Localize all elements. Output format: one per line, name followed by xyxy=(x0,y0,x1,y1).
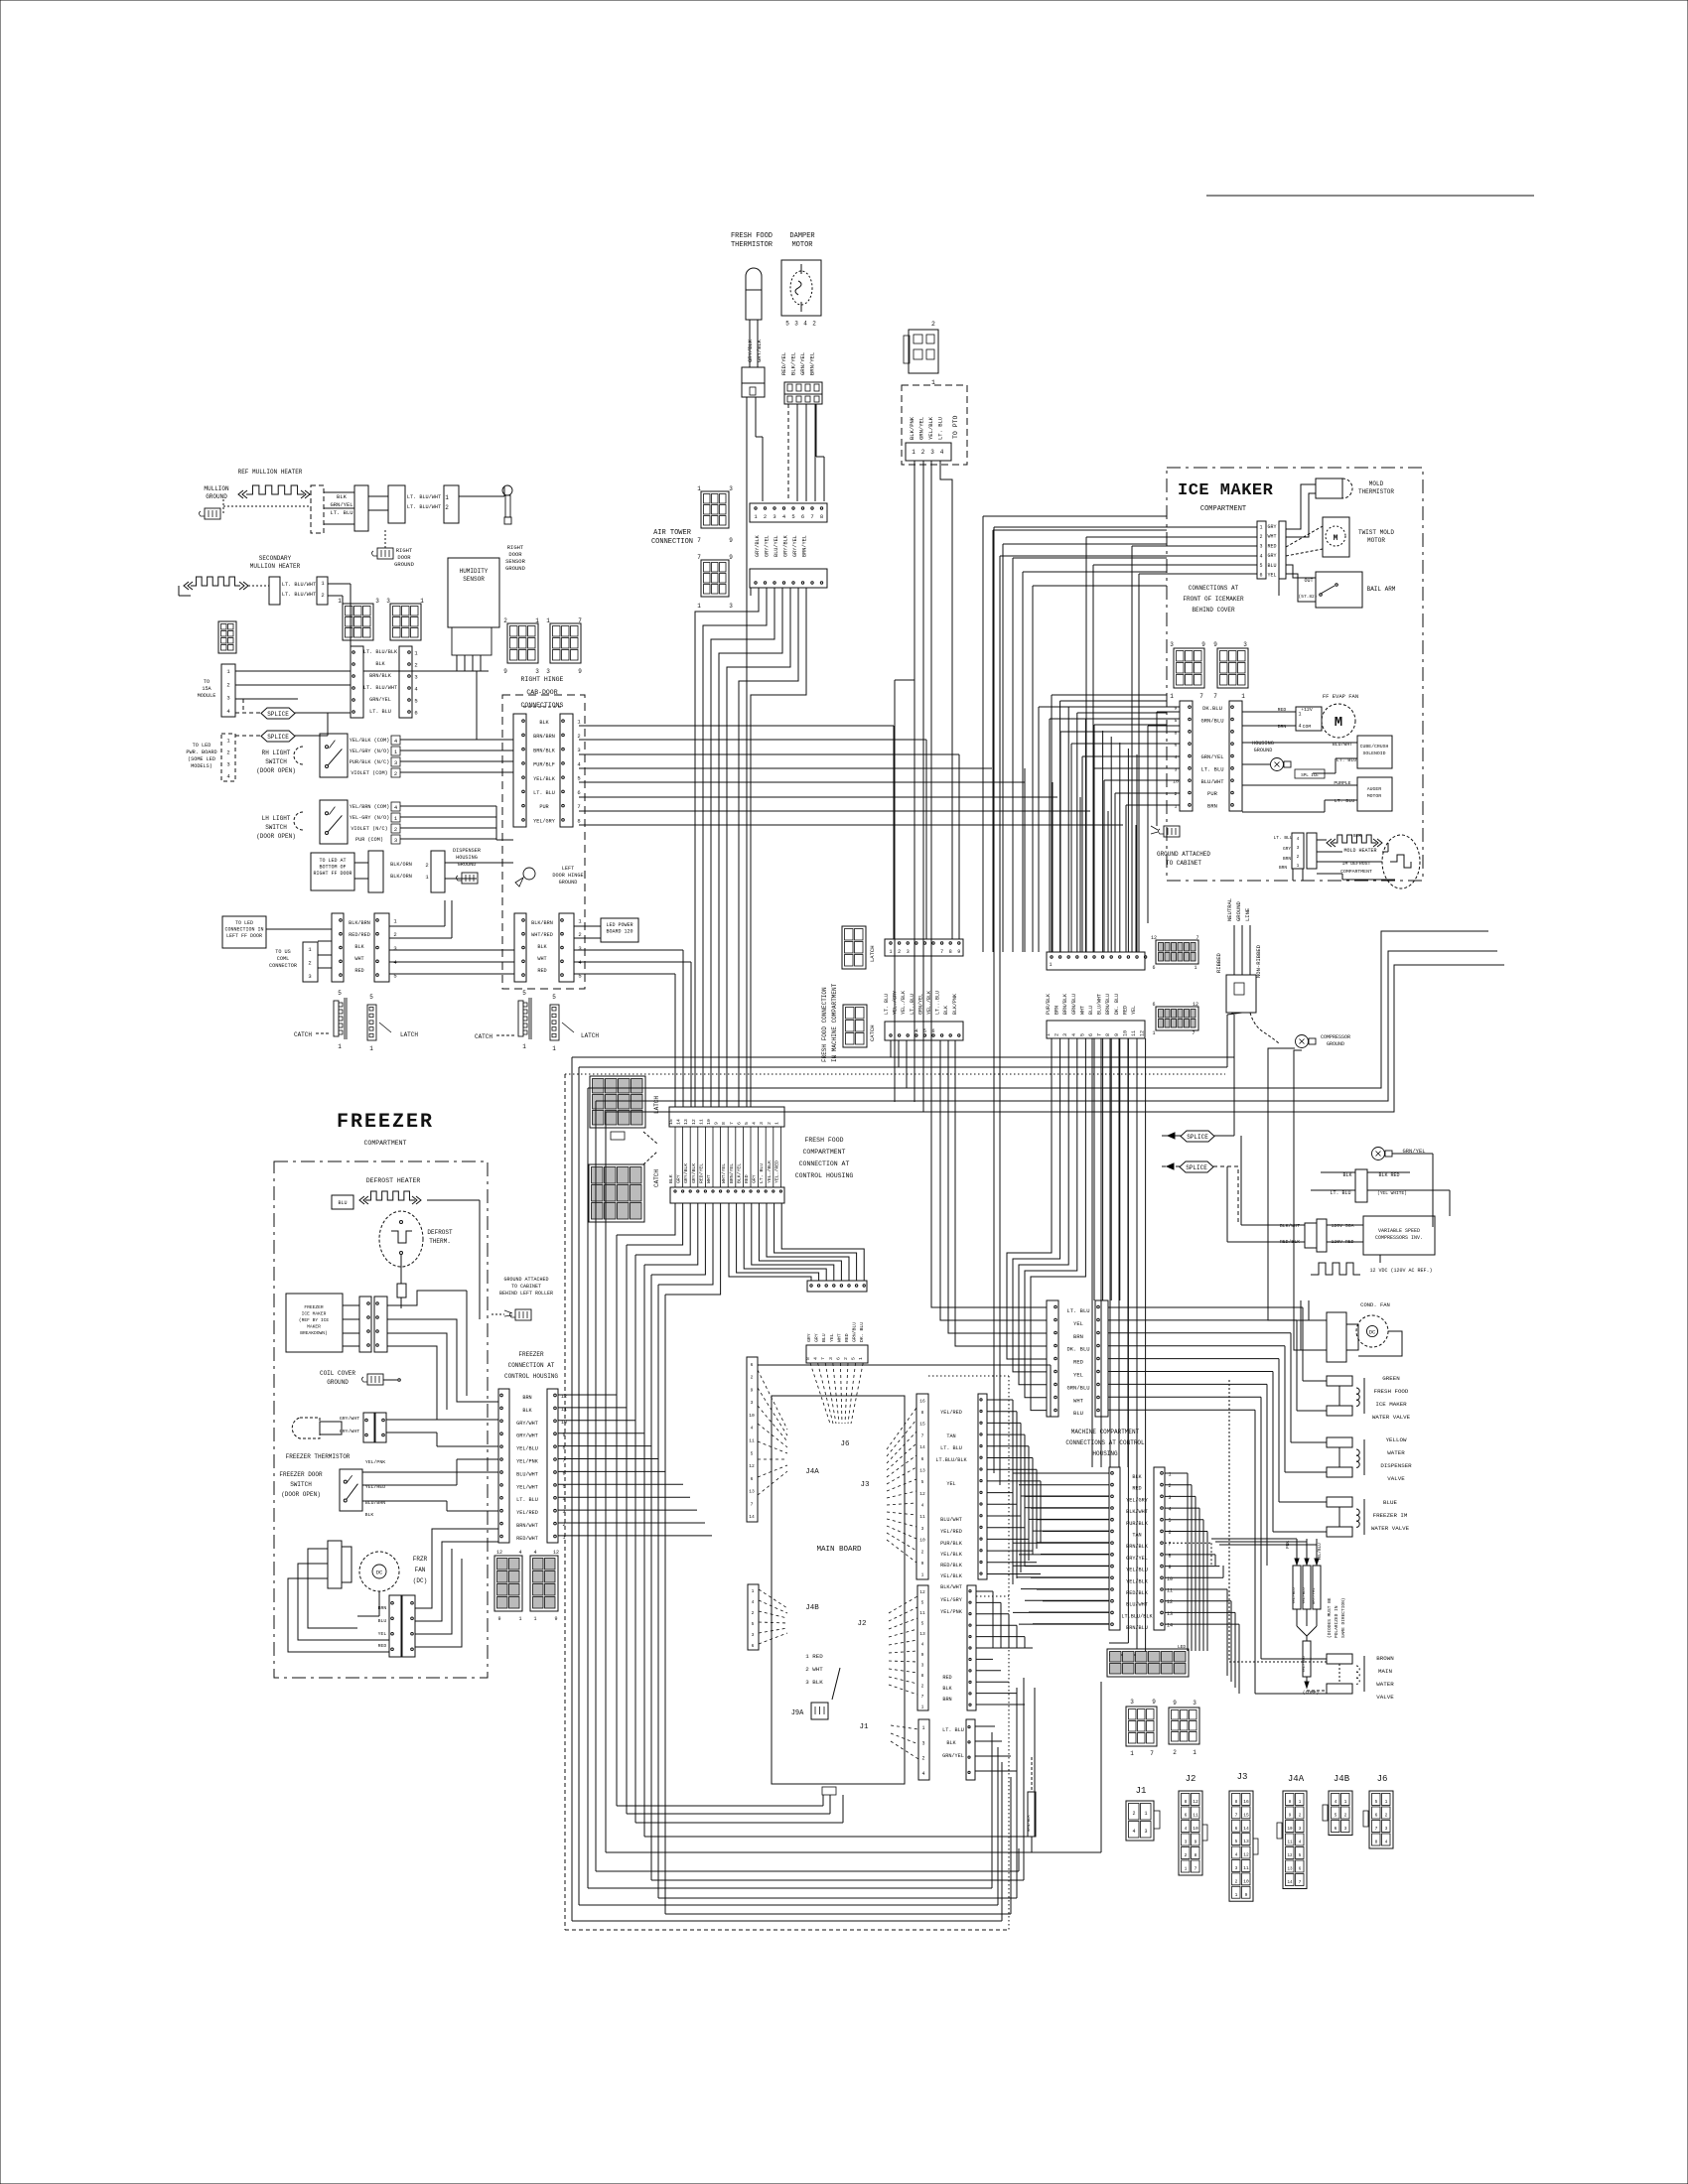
connector - ice maker grid A xyxy=(1174,648,1204,688)
svg-text:BRN: BRN xyxy=(1073,1333,1083,1340)
svg-text:1: 1 xyxy=(1194,965,1196,971)
left door hinge key symbol xyxy=(502,485,512,495)
svg-text:15A: 15A xyxy=(202,686,211,692)
svg-text:LEFT FF DOOR: LEFT FF DOOR xyxy=(226,933,262,939)
svg-text:3: 3 xyxy=(1130,1699,1134,1706)
svg-text:9: 9 xyxy=(1114,1033,1120,1036)
connector - latch grid big xyxy=(590,1076,645,1128)
svg-text:2: 2 xyxy=(921,449,925,456)
svg-text:9: 9 xyxy=(921,1561,924,1567)
svg-text:BRN: BRN xyxy=(1278,724,1287,730)
svg-text:ICE MAKER: ICE MAKER xyxy=(302,1311,327,1317)
svg-text:1: 1 xyxy=(1144,1811,1147,1817)
svg-text:GRY/BLK: GRY/BLK xyxy=(691,1163,697,1183)
svg-text:RED: RED xyxy=(378,1643,387,1649)
switch - LH light SW2 xyxy=(320,800,348,844)
ground - dispenser housing xyxy=(462,873,478,884)
svg-text:RED/BLK: RED/BLK xyxy=(1126,1590,1149,1596)
svg-text:BLK: BLK xyxy=(668,1174,674,1183)
svg-text:1: 1 xyxy=(1152,1030,1155,1036)
svg-text:PUR (COM): PUR (COM) xyxy=(355,837,383,843)
svg-text:FREEZER: FREEZER xyxy=(518,1351,544,1358)
svg-text:1: 1 xyxy=(697,485,701,492)
svg-text:1: 1 xyxy=(1344,1799,1347,1805)
wire - mold heater loop xyxy=(1317,839,1327,841)
svg-text:1: 1 xyxy=(1049,962,1052,968)
svg-text:YEL: YEL xyxy=(1073,1320,1083,1327)
svg-text:(YEL WHITE): (YEL WHITE) xyxy=(1377,1190,1407,1196)
svg-text:AUGER: AUGER xyxy=(1367,786,1382,792)
svg-text:3: 3 xyxy=(930,449,934,456)
svg-text:M: M xyxy=(1335,715,1342,731)
svg-text:MAIN: MAIN xyxy=(1378,1668,1392,1675)
right hinge dashed box xyxy=(502,695,585,989)
svg-text:1: 1 xyxy=(1193,1749,1196,1756)
svg-text:15: 15 xyxy=(919,1422,925,1428)
svg-text:BLU: BLU xyxy=(338,1200,347,1206)
freezer compartment box xyxy=(274,1161,488,1678)
svg-text:GRY/YEL: GRY/YEL xyxy=(765,535,771,557)
svg-text:11: 11 xyxy=(919,1610,925,1616)
svg-text:2: 2 xyxy=(1385,1813,1388,1819)
wire - auger xyxy=(1242,784,1357,786)
svg-text:SWITCH: SWITCH xyxy=(290,1481,312,1488)
connector - J1 strip xyxy=(918,1719,929,1780)
svg-text:7: 7 xyxy=(697,537,701,544)
wire - freezer strip right fanout xyxy=(558,1394,617,1396)
svg-text:WHT: WHT xyxy=(537,956,546,962)
svg-text:TO CABINET: TO CABINET xyxy=(511,1284,541,1290)
svg-text:GROUND: GROUND xyxy=(559,880,578,886)
svg-text:FRESH FOOD: FRESH FOOD xyxy=(731,232,773,240)
svg-text:1: 1 xyxy=(1241,693,1245,700)
svg-text:6: 6 xyxy=(736,1122,742,1125)
connector - J3 strip xyxy=(916,1394,928,1579)
wire - thermistor leads xyxy=(1286,484,1316,529)
svg-text:6: 6 xyxy=(414,710,417,717)
svg-text:3: 3 xyxy=(759,1122,765,1125)
cube crush solenoid box xyxy=(1357,736,1392,768)
svg-text:9: 9 xyxy=(1245,1892,1248,1898)
svg-text:GROUND: GROUND xyxy=(505,565,526,572)
svg-text:YEL/GRY (N/O): YEL/GRY (N/O) xyxy=(350,749,389,754)
connector - door strip C xyxy=(351,646,363,718)
variable speed compressor inverter box xyxy=(1363,1216,1435,1255)
svg-text:4: 4 xyxy=(914,1028,917,1034)
wire - solenoid xyxy=(1242,742,1331,744)
valve - blue freezer IM xyxy=(1327,1497,1352,1507)
svg-text:8: 8 xyxy=(949,949,952,955)
svg-text:CONNECTION IN: CONNECTION IN xyxy=(224,927,263,933)
svg-text:YEL./GRY: YEL./GRY xyxy=(893,991,899,1015)
wire - LED box links xyxy=(266,928,332,930)
auger motor box xyxy=(1357,777,1392,811)
connector - hinge grid F xyxy=(550,623,581,663)
svg-text:FREEZER IM: FREEZER IM xyxy=(1373,1512,1408,1519)
dotted - J2 yel/gry run xyxy=(976,1595,1009,1597)
svg-text:PUR/BLK: PUR/BLK xyxy=(1126,1521,1149,1527)
svg-text:WHT: WHT xyxy=(1073,1397,1084,1404)
connector - fresh food connection strip lower xyxy=(670,1187,784,1203)
wire - vertical bus xyxy=(1012,1400,1014,1584)
svg-text:12: 12 xyxy=(691,1119,697,1125)
svg-text:BRN: BRN xyxy=(942,1697,951,1703)
svg-text:SWITCH: SWITCH xyxy=(265,758,287,765)
bail arm box xyxy=(1316,572,1362,608)
svg-text:GRY/YEL: GRY/YEL xyxy=(1126,1556,1148,1562)
svg-text:FREEZER THERMISTOR: FREEZER THERMISTOR xyxy=(286,1453,351,1460)
svg-text:CONNECTIONS AT: CONNECTIONS AT xyxy=(1189,585,1239,592)
connector - J4B numbers strip xyxy=(748,1584,759,1650)
connector - machine housing strip right xyxy=(1154,1467,1165,1630)
svg-text:GRY/WHT: GRY/WHT xyxy=(516,1421,538,1427)
svg-text:9: 9 xyxy=(578,668,582,675)
svg-text:DC: DC xyxy=(376,1570,383,1576)
connector - machine grid lower xyxy=(1156,1007,1198,1030)
svg-text:HOUSING: HOUSING xyxy=(1092,1450,1118,1457)
svg-text:BLK/YEL: BLK/YEL xyxy=(736,1163,742,1183)
svg-text:BLK/BRN: BLK/BRN xyxy=(349,920,370,926)
svg-text:3: 3 xyxy=(907,949,910,955)
svg-text:J6: J6 xyxy=(840,1440,850,1448)
wire - machine corner 2 xyxy=(596,951,1497,1101)
connector - catch grid big xyxy=(589,1164,644,1222)
svg-text:3: 3 xyxy=(773,513,775,520)
svg-text:3: 3 xyxy=(1297,845,1300,851)
svg-text:BRN: BRN xyxy=(522,1395,531,1401)
svg-text:LATCH: LATCH xyxy=(400,1031,418,1038)
ground - mullion xyxy=(205,508,220,519)
wire - frzr fan loop xyxy=(308,1549,357,1628)
svg-text:YEL: YEL xyxy=(1073,1372,1083,1379)
svg-text:11: 11 xyxy=(1167,1588,1173,1594)
svg-text:YEL: YEL xyxy=(1267,573,1276,579)
svg-text:RED/WHT: RED/WHT xyxy=(516,1536,538,1542)
svg-text:1: 1 xyxy=(921,1572,924,1578)
svg-text:YEL/RED: YEL/RED xyxy=(940,1410,962,1416)
svg-text:8: 8 xyxy=(1235,1799,1238,1805)
wire - horizontal band xyxy=(572,1056,1234,1058)
wire - power cord leads xyxy=(1231,1013,1234,1015)
svg-text:PUR/BLK: PUR/BLK xyxy=(940,1541,963,1547)
svg-text:RIGHT: RIGHT xyxy=(507,544,524,551)
svg-text:12 VDC (120V AC REF.): 12 VDC (120V AC REF.) xyxy=(1369,1268,1432,1274)
svg-text:4: 4 xyxy=(1235,1852,1238,1858)
wire - J3 dashed fan xyxy=(887,1408,916,1449)
connector - mullion heater plug xyxy=(311,485,324,533)
connector - J6 pinout xyxy=(1369,1791,1393,1848)
svg-text:9: 9 xyxy=(729,537,733,544)
svg-text:LT. BLU: LT. BLU xyxy=(937,417,944,440)
connector - FF machine strip 2 xyxy=(885,1022,963,1040)
svg-text:BLU/WHT: BLU/WHT xyxy=(1200,778,1224,785)
svg-text:6: 6 xyxy=(1259,573,1262,579)
svg-text:6: 6 xyxy=(752,1643,755,1649)
connector - catch grid small xyxy=(843,1005,867,1047)
wire - FF lower strip left pins staircase down xyxy=(617,1203,675,1235)
svg-text:3: 3 xyxy=(1175,766,1178,772)
svg-text:2: 2 xyxy=(226,681,229,688)
svg-text:8: 8 xyxy=(1185,1799,1188,1805)
wire - J2 right outputs xyxy=(976,1590,993,1592)
svg-text:CONNECTIONS AT CONTROL: CONNECTIONS AT CONTROL xyxy=(1065,1439,1145,1446)
svg-text:4: 4 xyxy=(1185,1826,1188,1832)
svg-text:6: 6 xyxy=(801,513,804,520)
svg-text:AIR TOWER: AIR TOWER xyxy=(653,529,692,537)
svg-text:6: 6 xyxy=(751,1362,754,1368)
svg-text:7: 7 xyxy=(578,617,582,624)
svg-text:BLK: BLK xyxy=(354,944,364,950)
svg-text:2: 2 xyxy=(414,662,417,669)
svg-text:1: 1 xyxy=(518,1616,521,1622)
svg-text:RED: RED xyxy=(1073,1359,1084,1366)
svg-text:YEL/BLU: YEL/BLU xyxy=(1302,1587,1307,1604)
connector - ice maker pin strip left xyxy=(1180,701,1193,811)
wire - defrost heater loop xyxy=(427,1199,480,1201)
svg-text:8: 8 xyxy=(805,1357,811,1360)
svg-text:MOLD HEATER: MOLD HEATER xyxy=(1343,848,1376,854)
svg-text:3: 3 xyxy=(921,1526,924,1532)
svg-text:YEL/BLK: YEL/BLK xyxy=(940,1552,963,1558)
wire - ice maker bottom internal xyxy=(1292,869,1294,881)
svg-text:GRN/BLU: GRN/BLU xyxy=(1071,994,1077,1015)
svg-text:BLU/WHT: BLU/WHT xyxy=(1097,994,1103,1015)
wire - J6 dashed fan xyxy=(810,1363,830,1424)
svg-text:2: 2 xyxy=(1132,1811,1135,1817)
splice - auger xyxy=(1295,769,1325,778)
svg-text:4: 4 xyxy=(533,1550,536,1556)
connector - LED strip D xyxy=(559,913,574,982)
svg-text:RIGHT FF DOOR: RIGHT FF DOOR xyxy=(313,871,352,877)
svg-text:7: 7 xyxy=(1196,935,1198,941)
diode D2 xyxy=(1303,1566,1311,1609)
svg-text:9: 9 xyxy=(1201,641,1205,648)
svg-text:WATER VALVE: WATER VALVE xyxy=(1371,1525,1410,1532)
svg-text:RED/BLK: RED/BLK xyxy=(940,1563,963,1569)
connector - J4B pinout xyxy=(1329,1791,1352,1836)
wire - FF thermistor to fresh food strip xyxy=(746,397,748,1107)
svg-text:LT. BLU/WHT: LT. BLU/WHT xyxy=(407,504,441,510)
wire - damper to air tower xyxy=(787,404,789,501)
svg-text:2: 2 xyxy=(321,592,324,599)
svg-text:BRN: BRN xyxy=(378,1605,387,1611)
svg-text:ICE MAKER: ICE MAKER xyxy=(1178,481,1274,500)
svg-text:J4A: J4A xyxy=(1288,1774,1305,1784)
svg-text:13: 13 xyxy=(1287,1868,1293,1872)
svg-text:10: 10 xyxy=(1193,1826,1198,1832)
svg-text:CONNECTOR: CONNECTOR xyxy=(269,963,297,969)
svg-text:GREEN: GREEN xyxy=(1382,1375,1400,1382)
svg-text:BRN/YEL: BRN/YEL xyxy=(802,535,808,557)
svg-text:1: 1 xyxy=(369,1045,373,1052)
connector - J2 right strip xyxy=(967,1585,976,1710)
svg-text:BLK: BLK xyxy=(946,1740,956,1746)
svg-text:GRY: GRY xyxy=(814,1333,820,1342)
svg-text:3: 3 xyxy=(546,668,550,675)
svg-text:MULLION HEATER: MULLION HEATER xyxy=(250,563,301,570)
svg-text:3: 3 xyxy=(751,1400,754,1406)
svg-text:HOUSING: HOUSING xyxy=(456,855,478,861)
connector - LED strip C xyxy=(514,913,526,982)
svg-text:(DOOR OPEN): (DOOR OPEN) xyxy=(256,767,296,774)
svg-text:WHT: WHT xyxy=(1079,1006,1085,1015)
svg-text:1: 1 xyxy=(338,598,342,605)
wire - LED strips to right group xyxy=(389,925,445,927)
svg-text:4: 4 xyxy=(1298,724,1301,730)
svg-text:HOUSING: HOUSING xyxy=(1252,741,1274,747)
svg-text:WATER: WATER xyxy=(1376,1681,1394,1688)
svg-text:BLK/PNK: BLK/PNK xyxy=(952,994,958,1015)
svg-text:FAN: FAN xyxy=(415,1567,426,1573)
switch - RH light SW1 xyxy=(320,734,348,777)
svg-text:12: 12 xyxy=(919,1589,925,1595)
svg-text:(DOOR OPEN): (DOOR OPEN) xyxy=(256,833,296,840)
svg-text:BEHIND LEFT ROLLER: BEHIND LEFT ROLLER xyxy=(499,1291,553,1297)
svg-text:GRN/BLU: GRN/BLU xyxy=(852,1322,858,1342)
motor - FF evap fan M3 xyxy=(1322,704,1355,738)
wire - J4B dashed fan xyxy=(759,1589,787,1608)
svg-text:YEL/BLK: YEL/BLK xyxy=(533,776,556,782)
svg-text:BLK: BLK xyxy=(537,944,547,950)
connector - J6 strip 2 xyxy=(806,1345,868,1363)
diode D3 xyxy=(1313,1566,1321,1609)
connector - J4A pinout xyxy=(1283,1791,1307,1889)
svg-text:3: 3 xyxy=(1144,1829,1147,1835)
wire - diode top feeds xyxy=(1211,1538,1297,1540)
svg-text:BRN/BLU: BRN/BLU xyxy=(1126,1625,1148,1631)
svg-text:DOOR HINGE: DOOR HINGE xyxy=(552,873,583,879)
svg-text:(DIODES MUST BE: (DIODES MUST BE xyxy=(1327,1597,1333,1638)
connector - compressor plug xyxy=(1305,1223,1317,1248)
svg-text:RED: RED xyxy=(1267,543,1276,549)
svg-text:DC: DC xyxy=(1369,1329,1376,1336)
svg-text:1: 1 xyxy=(858,1357,864,1360)
svg-text:CONTROL HOUSING: CONTROL HOUSING xyxy=(504,1373,558,1380)
diode D1 xyxy=(1293,1566,1301,1609)
svg-text:7: 7 xyxy=(1168,1542,1171,1548)
wire - secondary mullion to strip xyxy=(328,583,351,585)
svg-text:5: 5 xyxy=(1168,1518,1171,1524)
svg-text:MAIN BOARD: MAIN BOARD xyxy=(816,1546,862,1554)
connector - air tower strip lower xyxy=(750,569,827,588)
svg-text:LT. BLU: LT. BLU xyxy=(1330,1190,1350,1196)
svg-text:1: 1 xyxy=(1235,1892,1238,1898)
svg-text:YEL-GRY (N/O): YEL-GRY (N/O) xyxy=(350,815,389,821)
svg-text:9: 9 xyxy=(1213,641,1217,648)
svg-text:5: 5 xyxy=(1375,1799,1378,1805)
svg-text:8: 8 xyxy=(1105,1033,1111,1036)
svg-text:MOLD: MOLD xyxy=(1369,480,1384,487)
svg-text:GRY/BLK: GRY/BLK xyxy=(755,534,761,557)
connector - machine top strip left xyxy=(1047,1300,1058,1417)
svg-text:7: 7 xyxy=(921,1433,924,1438)
svg-text:7: 7 xyxy=(820,1357,826,1360)
svg-text:CONNECTION: CONNECTION xyxy=(651,538,693,546)
svg-text:M: M xyxy=(1334,534,1338,543)
svg-text:7: 7 xyxy=(810,513,813,520)
svg-text:6: 6 xyxy=(1235,1826,1238,1832)
svg-text:GROUND: GROUND xyxy=(1327,1041,1344,1047)
svg-text:BRN/BLK: BRN/BLK xyxy=(533,748,556,753)
svg-text:BLU: BLU xyxy=(821,1333,827,1342)
svg-text:REF MULLION HEATER: REF MULLION HEATER xyxy=(238,469,303,476)
svg-text:GRY: GRY xyxy=(1267,524,1276,530)
svg-text:3: 3 xyxy=(393,945,396,952)
connector - freezer dotted grid 1 xyxy=(494,1556,522,1611)
svg-text:BRN/BLK: BRN/BLK xyxy=(1126,1544,1149,1550)
svg-text:THERMISTOR: THERMISTOR xyxy=(1358,488,1394,495)
TO LED connection left FF door box xyxy=(222,916,266,948)
svg-text:1: 1 xyxy=(1259,524,1262,530)
svg-text:GROUND: GROUND xyxy=(206,493,227,500)
svg-text:J4B: J4B xyxy=(805,1604,819,1612)
main board outline xyxy=(772,1396,905,1784)
svg-text:6: 6 xyxy=(931,1028,934,1034)
svg-text:13: 13 xyxy=(749,1489,755,1495)
svg-text:VALVE: VALVE xyxy=(1387,1475,1405,1482)
wire - center-left long verticals xyxy=(616,1235,618,1806)
svg-text:BRN: BRN xyxy=(1207,802,1217,809)
svg-text:7: 7 xyxy=(1375,1826,1378,1832)
svg-text:4: 4 xyxy=(1071,1033,1077,1036)
svg-text:GRY/WHT: GRY/WHT xyxy=(340,1429,359,1434)
svg-text:5: 5 xyxy=(338,990,342,997)
svg-text:HUMIDITY: HUMIDITY xyxy=(460,568,489,575)
svg-text:BRN/BLK: BRN/BLK xyxy=(1027,1815,1032,1832)
svg-text:4: 4 xyxy=(752,1122,758,1125)
svg-text:6: 6 xyxy=(751,1476,754,1482)
connector - TO PTO plug xyxy=(909,330,938,373)
svg-text:YELLOW: YELLOW xyxy=(1386,1436,1407,1443)
wire - LED door to hinge box xyxy=(445,862,513,864)
svg-text:2: 2 xyxy=(767,1122,773,1125)
svg-text:1: 1 xyxy=(912,449,915,456)
svg-text:YEL/BLU: YEL/BLU xyxy=(516,1446,538,1452)
svg-text:2: 2 xyxy=(898,949,901,955)
wire - hinge feeds down to FF machine strip xyxy=(893,726,895,939)
svg-text:LT. BLU: LT. BLU xyxy=(759,1163,765,1183)
connector - mullion mid xyxy=(388,485,405,523)
wire - J4A top feed xyxy=(758,1364,1051,1366)
svg-text:LT. BLU/WHT: LT. BLU/WHT xyxy=(407,494,441,500)
svg-text:GRN/YEL: GRN/YEL xyxy=(942,1753,964,1759)
svg-text:LINE: LINE xyxy=(1244,907,1251,921)
svg-text:SOLENOID: SOLENOID xyxy=(1362,751,1385,756)
svg-text:PUR/BLF: PUR/BLF xyxy=(533,762,555,768)
svg-text:ICE MAKER: ICE MAKER xyxy=(1375,1401,1407,1408)
connector - J6 strip top xyxy=(807,1281,867,1292)
svg-text:BLU: BLU xyxy=(1073,1410,1083,1417)
latch L2 xyxy=(550,1005,559,1040)
svg-text:DISPENSER: DISPENSER xyxy=(453,848,481,854)
svg-text:PNK: PNK xyxy=(1285,1541,1291,1549)
latch L1 xyxy=(367,1005,376,1040)
wire - machine housing left feeds xyxy=(1013,1472,1109,1474)
svg-text:LT. BLU: LT. BLU xyxy=(942,1727,964,1733)
heater - secondary mullion element xyxy=(184,582,189,590)
svg-text:MOTOR: MOTOR xyxy=(1367,537,1385,544)
svg-text:3: 3 xyxy=(1170,641,1174,648)
svg-text:(DOOR OPEN): (DOOR OPEN) xyxy=(281,1491,321,1498)
wire - left feeds to hinge xyxy=(476,671,478,740)
svg-text:FRZR: FRZR xyxy=(413,1556,428,1563)
svg-text:GRN/YEL: GRN/YEL xyxy=(1200,753,1223,760)
svg-text:3: 3 xyxy=(226,761,229,768)
svg-text:GROUND: GROUND xyxy=(394,561,415,568)
humidity sensor HS1 xyxy=(448,558,499,627)
wire - 12pin verticals above xyxy=(1051,695,1053,952)
svg-text:11: 11 xyxy=(749,1438,755,1444)
